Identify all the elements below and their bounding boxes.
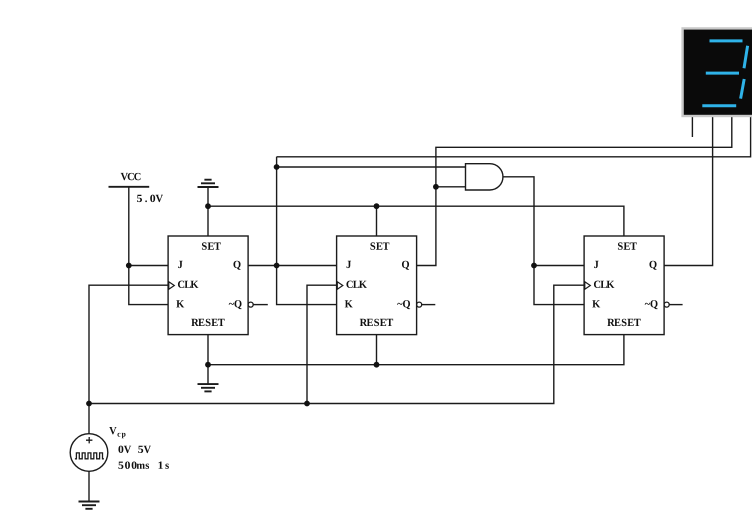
value label 0V 5V [118,446,151,453]
wire: AND input 2 from Q2 net [436,186,466,188]
square-wave glyph [75,453,104,459]
JK flip-flop U2A [337,236,422,335]
node: J1/VCC [126,263,132,269]
wire: clock source top lead [88,404,90,434]
ground (top, inverted) above SET bus [198,180,219,187]
node: RESET2 [374,362,380,368]
node: J3 tap [531,263,537,269]
wire: ~Q1 stub [253,304,268,306]
ground (reset bus) [198,384,219,391]
wire: Q3 output up to display pin B [664,116,713,266]
label V_cp [109,427,169,469]
node: clock source [86,401,92,407]
segment A [710,39,743,42]
wire: J3 branch [534,265,584,267]
value label 5.0V [137,195,163,202]
VCC rail bar [109,186,150,188]
wire: Q1 output [248,265,277,267]
wire: display pin A stub [691,116,693,138]
node: SET1 [205,203,211,209]
wire: AND output down to K3 [503,177,584,305]
segment B [744,46,748,68]
wire: Q1 net to display pin D [277,116,751,157]
segment G [706,72,739,75]
segment D [702,104,736,107]
VCC power symbol [109,173,163,202]
display body [683,28,752,116]
wire: J2 from Q1 net [277,265,337,267]
node: AND in2 tap [433,184,439,190]
wire: CLK2 branch [307,285,337,403]
wire: AND input 1 from Q1 net [277,166,466,168]
wire: ~Q3 stub [669,304,682,306]
wire: Q1 net vertical down to K2 [277,157,337,305]
label V (of V_cp) [109,427,116,434]
JK flip-flop U1A [168,236,253,335]
node: SET2 [374,203,380,209]
node: CLK2 tap [304,401,310,407]
ground (clock source) [79,502,100,509]
wire: SET bus from top ground to FF3 [208,187,624,236]
plus sign [86,437,92,443]
wire: ~Q2 stub [422,304,436,306]
wire: CLK1 to clock net [89,285,168,403]
wire: clock bottom bus to CLK3 [89,285,584,403]
source circle [70,434,108,472]
wire: VCC rail down to K1 [129,187,168,305]
wire: clock source bottom lead [88,471,90,501]
node: AND in1 tap [274,164,280,170]
label cp subscript [117,433,125,438]
wire: J1 from VCC rail [129,265,168,267]
JK flip-flop U3A [584,236,669,335]
label VCC [121,173,141,180]
segment C [741,79,745,99]
node: J2 tap [274,263,280,269]
value label 500ms 1s [118,461,168,468]
wire: RESET bus to ground [208,335,624,384]
wire: Q2 output up to display pin C [417,116,732,266]
clock source V1 [70,434,108,472]
AND gate U3 [466,164,503,190]
node: RESET1 [205,362,211,368]
seven-segment display U4 [683,28,752,116]
